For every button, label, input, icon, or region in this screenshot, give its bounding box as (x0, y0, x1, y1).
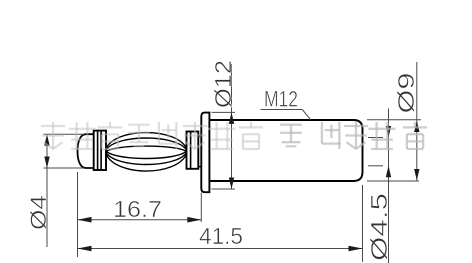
41.5 dimension line (78, 248, 363, 250)
svg-text:Ø12: Ø12 (210, 60, 236, 108)
dia4.5 arrows (386, 126, 391, 138)
banana plug tip (bullet) (78, 134, 95, 168)
dia4 extension lines (44, 133, 85, 135)
left collar ring (94, 131, 106, 170)
body cylinder (209, 120, 362, 181)
dia4.5 dimension line (388, 109, 390, 263)
41.5 arrows (78, 246, 92, 252)
watermark 东莞市东城惠辉电子经营部 (41, 122, 263, 149)
dimension linework (44, 62, 422, 263)
dia4 arrows (44, 134, 49, 146)
dia9 arrows (414, 121, 419, 132)
svg-text:M12: M12 (264, 87, 298, 112)
dia4 dimension line (46, 134, 48, 247)
M12 leader underline (261, 109, 303, 111)
16.7 extension line left (77, 172, 79, 257)
watermark right half 电子经营部 (280, 122, 427, 149)
svg-text:Ø4.5: Ø4.5 (366, 193, 392, 261)
flange (201, 113, 209, 193)
16.7 dimension line (78, 219, 202, 221)
svg-text:Ø4: Ø4 (26, 195, 51, 230)
16.7 extension line right (200, 193, 202, 223)
svg-text:Ø9: Ø9 (393, 73, 419, 114)
dia12 extension lines (212, 111, 236, 113)
right collar ring (187, 132, 199, 169)
dia9 dimension line (416, 62, 418, 181)
dia9 extension lines (367, 119, 421, 121)
svg-text:41.5: 41.5 (199, 223, 243, 249)
arrowheads (44, 112, 419, 251)
dia12 dimension line (231, 64, 233, 189)
svg-text:16.7: 16.7 (113, 196, 162, 222)
spring lamella arcs (106, 133, 187, 172)
41.5 extension line right (362, 185, 364, 262)
16.7 arrows (78, 217, 92, 223)
neck (198, 135, 201, 137)
dia12 arrows (229, 112, 234, 124)
dia4.5 extension lines (368, 137, 383, 139)
